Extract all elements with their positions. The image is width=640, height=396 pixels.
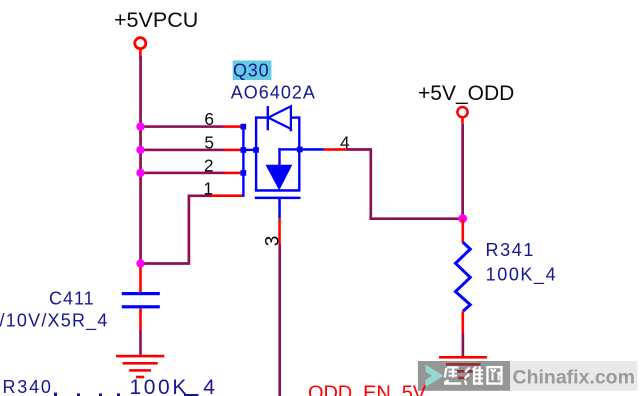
pin pad 4 on body xyxy=(297,147,303,153)
top diode cathode bar xyxy=(267,106,269,130)
power terminal +5V_ODD xyxy=(457,107,467,117)
gate tie link to body xyxy=(242,149,257,151)
pin 4 lead (red) xyxy=(324,148,348,151)
capacitor C411 bottom plate xyxy=(122,305,160,308)
svg-text:+5V_ODD: +5V_ODD xyxy=(418,82,514,105)
ground (C411) line 4 xyxy=(136,376,144,379)
wire: pin5 row xyxy=(139,149,224,152)
wire: R341 to ground xyxy=(462,334,465,356)
svg-text:+5VPCU: +5VPCU xyxy=(114,8,198,32)
pin 2 lead (red) xyxy=(225,172,243,175)
wire: C411 to ground xyxy=(139,330,142,355)
wire: pin1 route elbow xyxy=(140,196,211,264)
wire: +5V_ODD terminal stub xyxy=(461,118,464,124)
watermark glyph wang xyxy=(486,366,502,385)
svg-text:5: 5 xyxy=(204,133,214,153)
junction dot C411 node xyxy=(136,259,144,267)
top diode right stub xyxy=(290,116,300,118)
leader dot 2 xyxy=(77,393,80,396)
pin pad 6 xyxy=(241,124,247,130)
svg-text:1: 1 xyxy=(203,178,213,198)
svg-text:AO6402A: AO6402A xyxy=(231,83,316,103)
top diode left stub xyxy=(255,116,268,118)
svg-text:C411: C411 xyxy=(49,289,95,309)
drain inner line vertical xyxy=(278,148,280,166)
pin 5 lead (red) xyxy=(224,149,243,152)
capacitor C411 bottom lead (red) xyxy=(139,308,142,329)
wire: pin6 row xyxy=(139,125,223,128)
wire: pin2 row xyxy=(139,172,225,175)
watermark glyph xun xyxy=(444,366,461,384)
Q30 highlight xyxy=(233,61,272,81)
top diode triangle xyxy=(268,106,292,131)
resistor R341 zigzag xyxy=(456,242,471,311)
source bar lower xyxy=(255,197,301,200)
pin pad 5 xyxy=(241,147,247,153)
resistor R341 top lead (red) xyxy=(462,219,465,243)
svg-text:Chinafix.com: Chinafix.com xyxy=(513,367,635,389)
drain inner line horizontal xyxy=(278,148,298,150)
svg-text:100K_4: 100K_4 xyxy=(130,376,218,396)
wire: +5V_ODD drop xyxy=(461,124,464,219)
junction dot +5V_ODD node xyxy=(458,214,467,223)
pin 4 blue stub xyxy=(300,148,324,151)
power terminal +5VPCU xyxy=(135,38,146,49)
transistor Q30 body right line xyxy=(298,116,300,191)
ground (C411) top line xyxy=(116,355,164,358)
wire: pin3 down to ODD_EN_5V xyxy=(278,244,281,396)
svg-text:R341: R341 xyxy=(486,240,535,260)
body diode filled triangle xyxy=(266,165,291,189)
junction dot pin2 row xyxy=(136,169,144,177)
ground (C411) line 3 xyxy=(129,369,151,372)
svg-text:6: 6 xyxy=(204,109,214,129)
wire: +5VPCU terminal stub xyxy=(139,50,142,57)
junction dot pin5 row xyxy=(136,146,144,154)
ground (C411) line 2 xyxy=(123,362,158,365)
underscore of 100K_4 (R340 value) xyxy=(184,394,199,396)
svg-text:ODD_EN_5V: ODD_EN_5V xyxy=(308,383,427,396)
svg-text:4: 4 xyxy=(340,133,350,153)
capacitor C411 top plate xyxy=(122,292,160,295)
pin pad 2 xyxy=(241,170,247,176)
ground (R341) line 2 xyxy=(446,363,481,366)
transistor Q30 body left line xyxy=(255,116,257,191)
leader dot 1 xyxy=(54,393,57,396)
pin 6 lead (red) xyxy=(223,125,243,128)
svg-text:/10V/X5R_4: /10V/X5R_4 xyxy=(0,310,109,331)
pin 1 lead (red) xyxy=(211,194,244,197)
watermark light panel xyxy=(510,361,638,391)
gate tie line (pads column) xyxy=(242,125,244,197)
svg-text:3: 3 xyxy=(263,236,284,247)
capacitor C411 top lead (red) xyxy=(139,267,142,292)
resistor R341 bottom lead (red) xyxy=(462,311,465,334)
leader dot 3 xyxy=(99,393,102,396)
source bar upper xyxy=(255,189,300,192)
svg-text:Q30: Q30 xyxy=(233,60,269,80)
ground (R341) line 3 xyxy=(452,370,473,373)
svg-text:100K_4: 100K_4 xyxy=(486,264,558,285)
pin 3 lead (red) xyxy=(278,218,281,244)
junction dot pin6 row xyxy=(136,122,144,130)
wire: pin4 to +5V_ODD node xyxy=(347,150,463,219)
pin pad 5 on body xyxy=(253,147,259,153)
svg-text:R340: R340 xyxy=(3,377,53,396)
svg-text:2: 2 xyxy=(204,156,214,176)
wire: +5VPCU vertical rail xyxy=(139,56,142,265)
watermark glyph wei xyxy=(464,366,483,385)
watermark dark panel xyxy=(418,361,510,391)
leader dot 4 xyxy=(117,393,120,396)
watermark chevron xyxy=(426,365,444,388)
pin 3 blue stub xyxy=(278,197,281,218)
ground (R341) line 4 xyxy=(458,377,468,380)
ground (R341) top line xyxy=(439,356,487,359)
